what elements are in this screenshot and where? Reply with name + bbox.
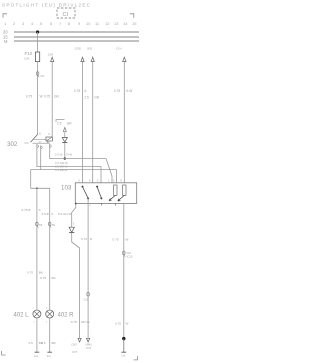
switch 302 contact rail lower [33,142,50,144]
frame corner bottom-left [2,351,6,355]
wire H2 from switch P1 to relay [37,148,101,182]
wire from relay pin to diode 2 [72,203,76,227]
wire H3 relay output [31,170,117,189]
switch 302 pin connector P2 [41,146,42,149]
bus rail M [14,40,139,42]
svg-text:RD-W: RD-W [81,320,89,324]
svg-text:0.75: 0.75 [81,237,87,241]
svg-text:2.5 B: 2.5 B [42,212,49,216]
svg-text:STA: STA [24,142,29,145]
wire 1 down to relay 103 [82,62,84,183]
svg-text:13: 13 [114,21,119,26]
svg-text:S5: S5 [52,223,56,227]
svg-text:CI: CI [63,12,69,18]
svg-text:KV7: KV7 [72,350,78,354]
track numbers row [4,21,137,26]
svg-text:103: 103 [61,184,72,191]
svg-text:0.75: 0.75 [114,89,120,93]
svg-text:C30: C30 [84,298,89,302]
connector on right lamp wire [48,222,51,226]
svg-text:0.5: 0.5 [41,341,46,345]
lamp L ground wire [36,318,38,352]
svg-text:0.75: 0.75 [40,276,46,280]
node: diode joins H1 [64,157,66,159]
svg-text:402 L: 402 L [14,313,30,319]
wire A: fuse down to switch 302 [37,62,39,135]
wire H1 from switch P3 to relay [50,148,112,182]
svg-text:IX51: IX51 [87,47,93,51]
svg-text:CE36: CE36 [75,47,82,51]
svg-text:0.75: 0.75 [74,89,80,93]
relay 103 box [75,183,136,204]
connector X21 on wire A [36,72,39,76]
svg-text:X10: X10 [126,251,131,255]
diode V2 [69,227,74,232]
svg-text:12: 12 [105,21,110,26]
svg-text:W: W [126,322,129,326]
svg-text:2x1: 2x1 [47,354,52,358]
svg-text:GN: GN [54,95,59,99]
wire 2 down to relay 103 [92,62,94,183]
relay coil 2 arrow [118,195,125,201]
svg-text:R-W: R-W [67,152,73,156]
bus rail 30 [14,31,139,33]
svg-text:0.5: 0.5 [29,341,34,345]
out arrow 2 [87,338,90,342]
connector C1 dashed box [57,8,75,18]
diode V1 [64,132,66,137]
svg-text:0.75: 0.75 [71,320,77,324]
svg-text:15: 15 [132,21,137,26]
svg-text:0.75: 0.75 [44,95,50,99]
svg-text:13H: 13H [48,53,54,57]
connector C30 on wire 2 [87,292,90,296]
svg-text:14: 14 [123,21,128,26]
ground terminal right [121,351,126,353]
svg-text:JC10: JC10 [126,255,133,259]
node: ground splice dot [122,337,125,340]
svg-text:0.5 W: 0.5 W [55,152,63,156]
svg-text:K-W: K-W [126,89,132,93]
wire to lamp L [36,188,38,309]
connector on left lamp wire [36,222,39,226]
wire from diode to H1 [64,142,66,158]
wire A: rail30 to fuse [37,32,39,52]
switch 302 pin connector P3 [50,144,51,149]
lamp feed split [31,188,50,309]
switch 302 pin connector P1 [37,144,39,148]
wire diode 2 down with jog to out arrow [72,233,80,339]
svg-text:2.5: 2.5 [57,121,62,125]
switch 302 contact block [46,137,52,141]
svg-text:N: N [48,133,50,136]
svg-text:0.75 B: 0.75 B [22,208,31,212]
svg-text:S5: S5 [39,223,43,227]
svg-text:CN3: CN3 [71,343,77,347]
svg-text:X21: X21 [40,75,45,78]
bracket above 2.5 GR label [56,120,65,122]
svg-text:KVT: KVT [86,346,92,350]
svg-text:13 H: 13 H [116,47,122,51]
wire 3 down to relay 103 [123,62,125,183]
node: junction to left lamp [36,187,38,189]
svg-text:2.5: 2.5 [84,96,89,100]
svg-text:1x1: 1x1 [34,354,39,358]
svg-text:GR: GR [67,121,72,125]
wire relay common down to out arrow 2 [87,203,89,338]
wire from switch P2 joining H3 [40,149,42,170]
svg-text:0.75: 0.75 [27,271,33,275]
svg-text:10A: 10A [24,56,30,60]
fuse F10 [35,52,39,62]
svg-text:0.75: 0.75 [113,238,119,242]
svg-text:402 R: 402 R [58,313,75,319]
frame corner bottom-right [134,356,138,360]
svg-text:W: W [126,238,129,242]
svg-text:0.75: 0.75 [26,95,32,99]
svg-text:0.75: 0.75 [115,322,121,326]
switch 302 blade [31,134,38,142]
relay coil 2 [123,185,126,195]
switch 302 contact rail upper [33,138,47,140]
svg-text:GR: GR [94,96,99,100]
connector X10 on ground wire [123,251,126,255]
switch 302 block bottom pin [47,141,49,143]
relay coil 1 [114,185,117,195]
ground terminal lamp R [47,351,52,353]
node: junction dot on rail 30 [36,30,39,33]
wire B down to switch 302 [51,62,53,137]
svg-text:302: 302 [7,141,18,148]
out arrow 1 [78,338,81,342]
wire relay coil to ground [123,203,125,338]
svg-text:0.5 GN-W: 0.5 GN-W [58,212,72,216]
frame corner top-right [130,14,134,18]
svg-text:0.5 BR-W: 0.5 BR-W [55,168,68,172]
svg-text:M: M [4,39,8,44]
frame corner top-left [3,14,7,18]
relay contact 1 [82,186,84,188]
relay contact 2 [96,186,98,188]
lamp R ground wire [49,318,51,352]
svg-text:W: W [40,95,43,99]
svg-text:1+1: 1+1 [121,353,126,357]
relay coil 1 arrow [109,195,115,200]
bus rail 15 [14,36,139,38]
svg-text:10: 10 [86,21,91,26]
ground terminal lamp L [35,351,40,353]
